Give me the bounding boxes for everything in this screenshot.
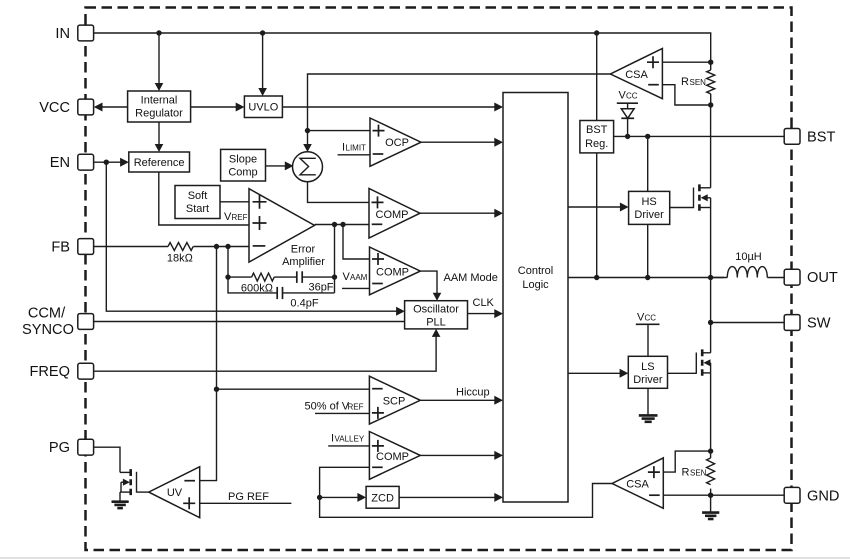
svg-text:SCP: SCP — [383, 396, 406, 408]
block ZCD — [366, 486, 399, 508]
wire CCM/SYNCO to Oscillator PLL — [94, 321, 405, 323]
wire UVLO to Control Logic — [282, 103, 503, 112]
wire COMP output to Control Logic — [420, 209, 503, 218]
wire SW line to SW pin — [711, 322, 785, 324]
svg-text:FREQ: FREQ — [29, 364, 70, 380]
svg-text:COMP: COMP — [376, 209, 409, 221]
svg-text:Control: Control — [518, 265, 553, 277]
comparator SCP — [369, 376, 420, 424]
svg-text:UVLO: UVLO — [248, 102, 278, 114]
wire Reference to VREF node (EA middle input) — [159, 172, 249, 225]
wire FB sense vertical (to SCP and UV) — [200, 247, 220, 481]
svg-text:Oscillator: Oscillator — [413, 304, 459, 316]
svg-text:SEN: SEN — [690, 469, 707, 478]
ground under RSEN bottom — [702, 495, 719, 519]
pin OUT — [784, 269, 838, 286]
wire compensation to EA output node — [334, 225, 336, 293]
label ILIMIT and stub to OCP minus — [338, 142, 370, 155]
pin IN — [55, 25, 93, 42]
block Soft Start — [175, 186, 220, 219]
svg-text:Comp: Comp — [228, 166, 257, 178]
svg-text:CC: CC — [626, 92, 638, 101]
svg-text:Driver: Driver — [633, 374, 663, 386]
resistor 600kOhm — [241, 273, 274, 294]
pin PG — [49, 439, 94, 456]
svg-text:SW: SW — [807, 316, 831, 332]
block HS Driver — [629, 191, 670, 224]
block Control Logic — [503, 93, 568, 503]
pin SW — [784, 315, 831, 332]
page bottom rule — [0, 557, 850, 558]
svg-text:Internal: Internal — [141, 95, 178, 107]
svg-text:Regulator: Regulator — [135, 108, 183, 120]
svg-text:CLK: CLK — [473, 297, 495, 309]
block Internal Regulator — [128, 91, 191, 122]
label PG REF and stub to UV plus — [200, 491, 292, 503]
transistor PG FET — [120, 469, 137, 495]
wire BST rail (BST Reg to BST pin) — [614, 134, 785, 139]
svg-text:CC: CC — [645, 314, 657, 323]
transistor LS FET — [668, 349, 711, 375]
wire BST rail to HS Driver top — [647, 136, 649, 191]
label IVALLEY and stub to valley comparator plus — [328, 433, 369, 446]
block Oscillator PLL — [405, 301, 468, 329]
svg-text:CSA: CSA — [625, 69, 648, 81]
wire sigma branch to OCP plus — [308, 130, 371, 132]
svg-text:LIMIT: LIMIT — [346, 144, 367, 153]
svg-text:REF: REF — [348, 403, 364, 412]
wire Slope Comp to sigma — [266, 161, 294, 170]
svg-text:COMP: COMP — [376, 267, 409, 279]
capacitor 0.4pF — [277, 287, 334, 309]
svg-text:PG: PG — [49, 440, 70, 456]
wire valley comparator output to Control Logic — [420, 451, 503, 460]
svg-text:Hiccup: Hiccup — [456, 387, 490, 399]
wire IN bus (IN pin to RSEN top) — [94, 30, 711, 62]
pin CCM/SYNCO — [22, 306, 94, 339]
wire compensation branch from FB node — [225, 247, 337, 293]
wire Control Logic to LS Driver — [568, 369, 628, 378]
wire CSA bottom minus to GND pin — [663, 493, 784, 498]
svg-text:IN: IN — [55, 26, 70, 42]
label VREF — [224, 211, 248, 223]
wire sigma output to COMP plus — [308, 182, 370, 203]
pin GND — [784, 487, 839, 504]
wire EA output to COMP — [315, 222, 370, 227]
wire EN pin to Reference — [94, 158, 129, 167]
svg-text:UV: UV — [167, 487, 183, 499]
svg-text:AAM Mode: AAM Mode — [444, 272, 498, 284]
svg-text:REF: REF — [232, 213, 248, 222]
wire HS FET drain to RSEN — [710, 105, 712, 188]
capacitor 36pF — [274, 271, 334, 293]
op-amp UV (power good) — [149, 467, 200, 518]
svg-text:CSA: CSA — [626, 479, 649, 491]
wire IN to BST Reg (down through box top) — [596, 33, 598, 121]
block Reference — [129, 152, 190, 172]
wire Control Logic to HS Driver — [568, 203, 629, 212]
wire Internal Regulator to VCC pin — [94, 103, 128, 112]
op-amp CSA top — [610, 48, 662, 98]
wire LS FET source to RSEN bottom — [708, 373, 713, 454]
wire FB line with 18k resistor — [94, 244, 249, 249]
pin BST — [784, 129, 835, 146]
wire IN to Internal Regulator — [155, 33, 164, 91]
svg-text:EN: EN — [50, 155, 70, 171]
wire FREQ to Oscillator PLL bottom — [94, 329, 441, 371]
ground under LS Driver — [639, 388, 658, 422]
svg-text:Amplifier: Amplifier — [282, 256, 325, 268]
svg-text:Reference: Reference — [134, 157, 185, 169]
svg-text:VCC: VCC — [39, 100, 70, 116]
resistor RSEN bottom — [682, 451, 715, 495]
svg-text:R: R — [681, 76, 689, 88]
svg-text:R: R — [682, 467, 690, 479]
wire HS FET source to OUT line — [710, 208, 712, 278]
label VAAM and stub to AAM comparator minus — [342, 271, 370, 289]
wire SCP output to Control Logic (Hiccup) — [420, 387, 503, 405]
wire CSA bottom plus to RSEN top — [663, 451, 710, 472]
wire UV output to PG FET gate — [137, 491, 149, 493]
wire ZCD output to Control Logic — [399, 493, 503, 502]
svg-text:Reg.: Reg. — [585, 138, 608, 150]
wire HS Driver bottom to OUT line — [647, 224, 649, 277]
sigma adder — [293, 152, 323, 182]
comparator COMP (AAM) — [370, 247, 421, 295]
power VCC symbol for LS Driver — [636, 312, 660, 357]
svg-text:Slope: Slope — [229, 153, 257, 165]
pin EN — [50, 154, 94, 171]
pin FB — [51, 239, 93, 256]
ground under PG FET — [112, 492, 129, 508]
power VCC symbol with bootstrap diode — [617, 90, 638, 109]
resistor 18kOhm — [167, 243, 194, 265]
block BST Reg — [580, 121, 614, 153]
svg-text:HS: HS — [641, 196, 656, 208]
wire Oscillator PLL CLK to Control Logic — [468, 297, 504, 318]
svg-text:OCP: OCP — [385, 137, 409, 149]
op-amp Error Amplifier — [249, 189, 325, 268]
svg-text:SEN: SEN — [690, 78, 707, 87]
wire IN to UVLO — [258, 33, 267, 96]
op-amp CSA bottom — [612, 458, 663, 508]
svg-text:VALLEY: VALLEY — [335, 435, 365, 444]
svg-text:BST: BST — [586, 124, 608, 136]
svg-text:Logic: Logic — [522, 279, 549, 291]
svg-text:CCM/: CCM/ — [28, 306, 66, 322]
wire Soft Start to Error Amplifier top input — [220, 201, 249, 203]
svg-text:600kΩ: 600kΩ — [241, 283, 274, 295]
wire CSA top plus to RSEN top — [662, 60, 713, 65]
transistor HS FET — [670, 184, 711, 210]
comparator COMP (PWM) — [369, 189, 420, 239]
svg-text:AAM: AAM — [350, 273, 368, 282]
svg-text:18kΩ: 18kΩ — [167, 253, 194, 265]
label 50% of VREF and stub to SCP plus — [305, 401, 370, 414]
block LS Driver — [628, 356, 667, 388]
wire EA output branch to AAM comparator plus — [343, 225, 370, 260]
svg-text:PLL: PLL — [426, 317, 446, 329]
wire SW node vertical (OUT line to LS FET drain) — [708, 278, 713, 353]
svg-text:BST: BST — [807, 129, 835, 145]
pin FREQ — [29, 363, 93, 380]
comparator OCP — [370, 118, 421, 166]
diode D1 (VCC to BST) — [621, 109, 634, 137]
wire CSA top minus to RSEN bottom — [662, 85, 713, 108]
block Slope Comp — [221, 149, 266, 181]
wire CSA top output to sigma adder — [303, 74, 610, 152]
svg-text:ZCD: ZCD — [371, 492, 394, 504]
resistor RSEN top — [681, 62, 715, 105]
svg-text:FB: FB — [51, 240, 70, 256]
svg-text:COMP: COMP — [376, 451, 409, 463]
svg-text:10µH: 10µH — [735, 251, 762, 263]
svg-text:0.4pF: 0.4pF — [290, 297, 318, 309]
svg-text:Driver: Driver — [634, 209, 664, 221]
svg-text:PG REF: PG REF — [228, 491, 269, 503]
inductor 10uH — [711, 251, 785, 278]
wire AAM comparator output to Oscillator PLL (AAM Mode) — [420, 271, 498, 301]
svg-text:Soft: Soft — [188, 190, 208, 202]
wire OCP output to Control Logic — [421, 138, 503, 147]
wire BST Reg bottom to OUT line — [596, 153, 598, 278]
svg-text:SYNCO: SYNCO — [22, 322, 74, 338]
pin VCC — [39, 99, 93, 116]
wire PG pin to PG FET drain — [94, 447, 120, 472]
wire EN branch to Oscillator PLL — [106, 162, 405, 316]
wire valley comparator minus loop from CSA bottom — [317, 467, 612, 517]
wire Internal Regulator to UVLO — [191, 103, 245, 112]
svg-text:LS: LS — [641, 361, 654, 373]
svg-text:Start: Start — [186, 203, 209, 215]
svg-text:50% of V: 50% of V — [305, 401, 350, 413]
block UVLO — [244, 96, 282, 118]
svg-text:GND: GND — [807, 488, 839, 504]
svg-text:OUT: OUT — [807, 270, 838, 286]
svg-text:36pF: 36pF — [308, 281, 333, 293]
wire to ZCD input — [320, 493, 367, 502]
wire SCP minus feed — [217, 388, 370, 390]
svg-text:Error: Error — [291, 244, 316, 256]
wire OUT line (Control Logic to inductor) — [568, 275, 724, 280]
comparator COMP (valley) — [369, 432, 420, 480]
wire Internal Regulator to Reference — [155, 122, 164, 152]
